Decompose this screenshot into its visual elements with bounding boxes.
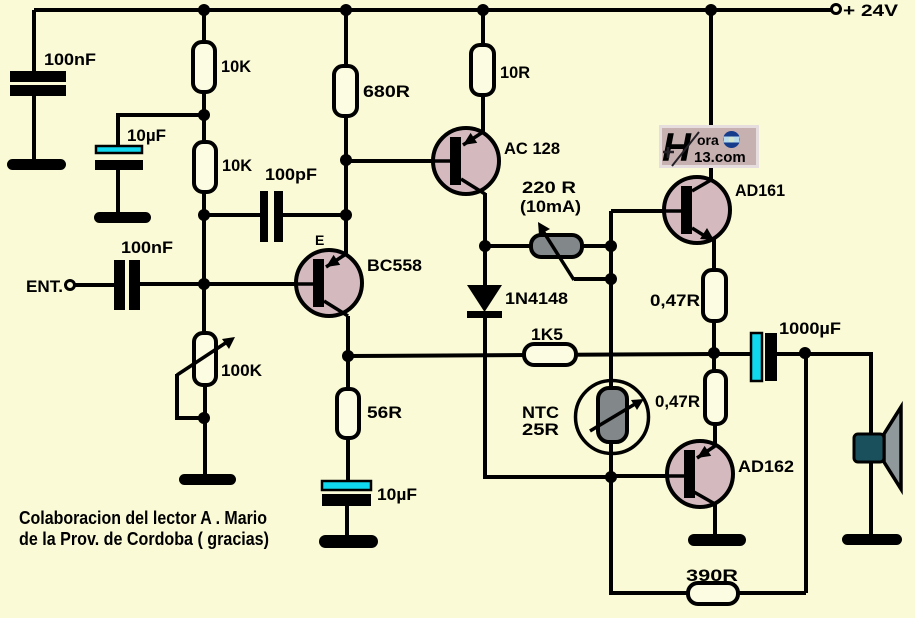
- svg-text:ENT.: ENT.: [26, 277, 63, 296]
- svg-text:25R: 25R: [522, 420, 559, 439]
- svg-text:100nF: 100nF: [44, 50, 96, 69]
- svg-text:390R: 390R: [686, 566, 738, 585]
- svg-text:(10mA): (10mA): [520, 197, 581, 216]
- svg-text:10K: 10K: [222, 156, 253, 175]
- svg-text:1N4148: 1N4148: [505, 289, 568, 308]
- svg-text:10µF: 10µF: [377, 485, 417, 504]
- svg-text:56R: 56R: [367, 403, 402, 422]
- svg-text:AD161: AD161: [735, 181, 785, 200]
- svg-text:de la Prov. de Cordoba ( graci: de la Prov. de Cordoba ( gracias): [19, 529, 269, 549]
- svg-text:+ 24V: + 24V: [843, 1, 899, 20]
- svg-text:220 R: 220 R: [522, 178, 576, 197]
- svg-text:10K: 10K: [221, 57, 252, 76]
- svg-text:0,47R: 0,47R: [655, 392, 700, 411]
- svg-text:100nF: 100nF: [121, 238, 173, 257]
- svg-text:AD162: AD162: [738, 457, 794, 476]
- svg-text:13.com: 13.com: [694, 149, 746, 166]
- svg-text:E: E: [315, 232, 324, 248]
- svg-text:0,47R: 0,47R: [650, 291, 700, 310]
- svg-text:100K: 100K: [221, 361, 263, 380]
- svg-text:AC 128: AC 128: [504, 139, 560, 158]
- svg-text:Colaboracion del lector A . Ma: Colaboracion del lector A . Mario: [19, 508, 267, 528]
- svg-text:10R: 10R: [500, 63, 530, 82]
- svg-text:BC558: BC558: [367, 256, 422, 275]
- svg-text:10µF: 10µF: [127, 126, 166, 145]
- svg-text:1K5: 1K5: [531, 325, 563, 344]
- svg-text:1000µF: 1000µF: [779, 319, 841, 338]
- svg-text:ora: ora: [697, 132, 719, 148]
- svg-text:680R: 680R: [363, 82, 410, 101]
- svg-text:100pF: 100pF: [265, 165, 317, 184]
